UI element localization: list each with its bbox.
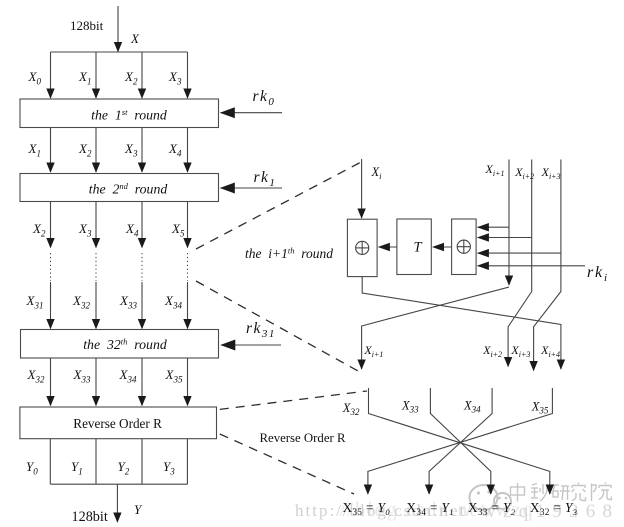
svg-text:128bit: 128bit [72, 509, 108, 525]
svg-text:X32: X32 [27, 367, 45, 385]
svg-text:128bit: 128bit [70, 18, 104, 33]
svg-text:Xi+1: Xi+1 [485, 162, 505, 178]
round key labels [246, 88, 276, 340]
wire X35 into reverse [50, 358, 52, 406]
wire Xi+1 cross to left output [362, 287, 509, 369]
svg-text:X4: X4 [168, 141, 182, 159]
dashed guide upper round [196, 161, 363, 249]
dashed guide lower round [196, 281, 358, 371]
svg-text:Y1: Y1 [71, 459, 83, 477]
wire stub X35 [368, 388, 553, 494]
wire Y3 column [49, 439, 51, 485]
svg-text:the 2nd round: the 2nd round [89, 181, 168, 197]
watermark text 中钞研究院 [511, 483, 612, 502]
svg-text:Xi+3: Xi+3 [510, 343, 530, 359]
svg-text:Xi: Xi [371, 165, 383, 181]
wire X34 into round32 [50, 282, 52, 329]
wire rk0 input [221, 112, 283, 114]
svg-text:X32: X32 [342, 401, 360, 417]
char 研 [552, 485, 570, 500]
dashed guide lower reverse [220, 434, 354, 494]
svg-text:Y: Y [134, 502, 143, 517]
wire U1 output cross to Xi+4 [362, 277, 561, 369]
char 究 [572, 483, 586, 501]
svg-text:X5: X5 [171, 221, 185, 239]
xor symbol U1 [356, 241, 369, 254]
char 中 [511, 483, 525, 502]
wire Xi+3 vertical and shift [534, 160, 561, 371]
wire output collect bar [50, 483, 187, 485]
wire dotted continuation columns [51, 253, 188, 281]
block reverse order R [20, 407, 217, 439]
dashed zoom guides [196, 161, 367, 494]
svg-text:Reverse Order R: Reverse Order R [260, 431, 346, 445]
svg-text:X0: X0 [28, 69, 42, 87]
wire top distribution bar [51, 51, 188, 53]
svg-text:Reverse Order R: Reverse Order R [73, 416, 162, 431]
svg-text:X32: X32 [72, 293, 90, 311]
char 院 [592, 483, 612, 502]
svg-text:X33 = Y2: X33 = Y2 [468, 500, 516, 517]
svg-text:X35: X35 [165, 367, 183, 385]
block round 2 [20, 174, 219, 202]
svg-text:the i+1th round: the i+1th round [245, 246, 333, 262]
svg-text:X34: X34 [119, 367, 137, 385]
wire rk31 input [221, 344, 281, 346]
svg-text:X33: X33 [401, 399, 419, 415]
wire Xi+3 tap into U2 [478, 252, 561, 254]
wire rki into U2 [478, 265, 585, 267]
wire Xi+2 vertical and shift [508, 160, 532, 367]
svg-text:X31: X31 [26, 293, 44, 311]
dashed guide upper reverse [220, 391, 367, 409]
block T [397, 219, 431, 275]
svg-text:the 1st round: the 1st round [91, 107, 167, 123]
wire X3 into round1 [50, 52, 52, 98]
svg-text:X35: X35 [531, 400, 549, 416]
svg-text:Y3: Y3 [163, 459, 175, 477]
svg-text:Y0: Y0 [26, 459, 38, 477]
block round 32 [21, 330, 219, 359]
wire dotted column 4 [50, 253, 52, 281]
svg-text:X35 = Y0: X35 = Y0 [343, 500, 391, 517]
svg-text:X33: X33 [119, 293, 137, 311]
svg-text:X33: X33 [73, 367, 91, 385]
wire output Y [116, 484, 118, 522]
wire Xi input [361, 159, 363, 218]
svg-text:Xi+4: Xi+4 [540, 343, 560, 359]
svg-text:Xi+3: Xi+3 [541, 165, 561, 181]
svg-text:Xi+1: Xi+1 [363, 343, 383, 359]
wire stub X32 [369, 388, 550, 494]
char 钞 [531, 484, 548, 502]
svg-text:rk0: rk0 [253, 88, 276, 108]
svg-text:X2: X2 [78, 141, 92, 159]
block texts [73, 107, 167, 431]
xor box U2 [452, 219, 477, 275]
svg-text:X: X [130, 31, 140, 46]
svg-text:X32 = Y3: X32 = Y3 [530, 500, 577, 517]
watermark logo bubbles [470, 485, 512, 510]
wire stub X34 [429, 388, 492, 494]
svg-text:X34 = Y1: X34 = Y1 [407, 500, 454, 517]
svg-text:X3: X3 [168, 69, 182, 87]
svg-text:X2: X2 [32, 221, 46, 239]
wire top input X [117, 6, 119, 52]
xor box U1 [347, 219, 377, 276]
wire T to xor U1 [379, 246, 397, 248]
svg-text:X1: X1 [78, 69, 91, 87]
svg-text:Xi+2: Xi+2 [482, 343, 502, 359]
wire Xi+1 tap into U2 [478, 226, 509, 228]
svg-text:X3: X3 [124, 141, 138, 159]
wire Xi+2 tap into U2 [478, 237, 532, 239]
labels left diagram [26, 18, 185, 525]
wire X5 out of round2 [50, 202, 52, 248]
svg-text:rki: rki [587, 264, 609, 284]
svg-text:T: T [414, 240, 423, 256]
wire rk1 input [221, 187, 283, 189]
svg-text:rk1: rk1 [254, 169, 277, 189]
wire X4 into round2 [50, 128, 52, 173]
svg-text:X34: X34 [463, 399, 481, 415]
block round 1 [20, 99, 219, 128]
svg-text:X3: X3 [78, 221, 92, 239]
wire xor U2 to T [433, 246, 452, 248]
wire stub X33 [430, 388, 490, 494]
svg-text:X1: X1 [28, 141, 41, 159]
xor symbol U2 [457, 240, 470, 253]
svg-text:X34: X34 [164, 293, 182, 311]
svg-text:Y2: Y2 [118, 459, 130, 477]
wire Xi+1 vertical [508, 160, 510, 286]
svg-text:X4: X4 [125, 221, 139, 239]
svg-text:X2: X2 [124, 69, 138, 87]
